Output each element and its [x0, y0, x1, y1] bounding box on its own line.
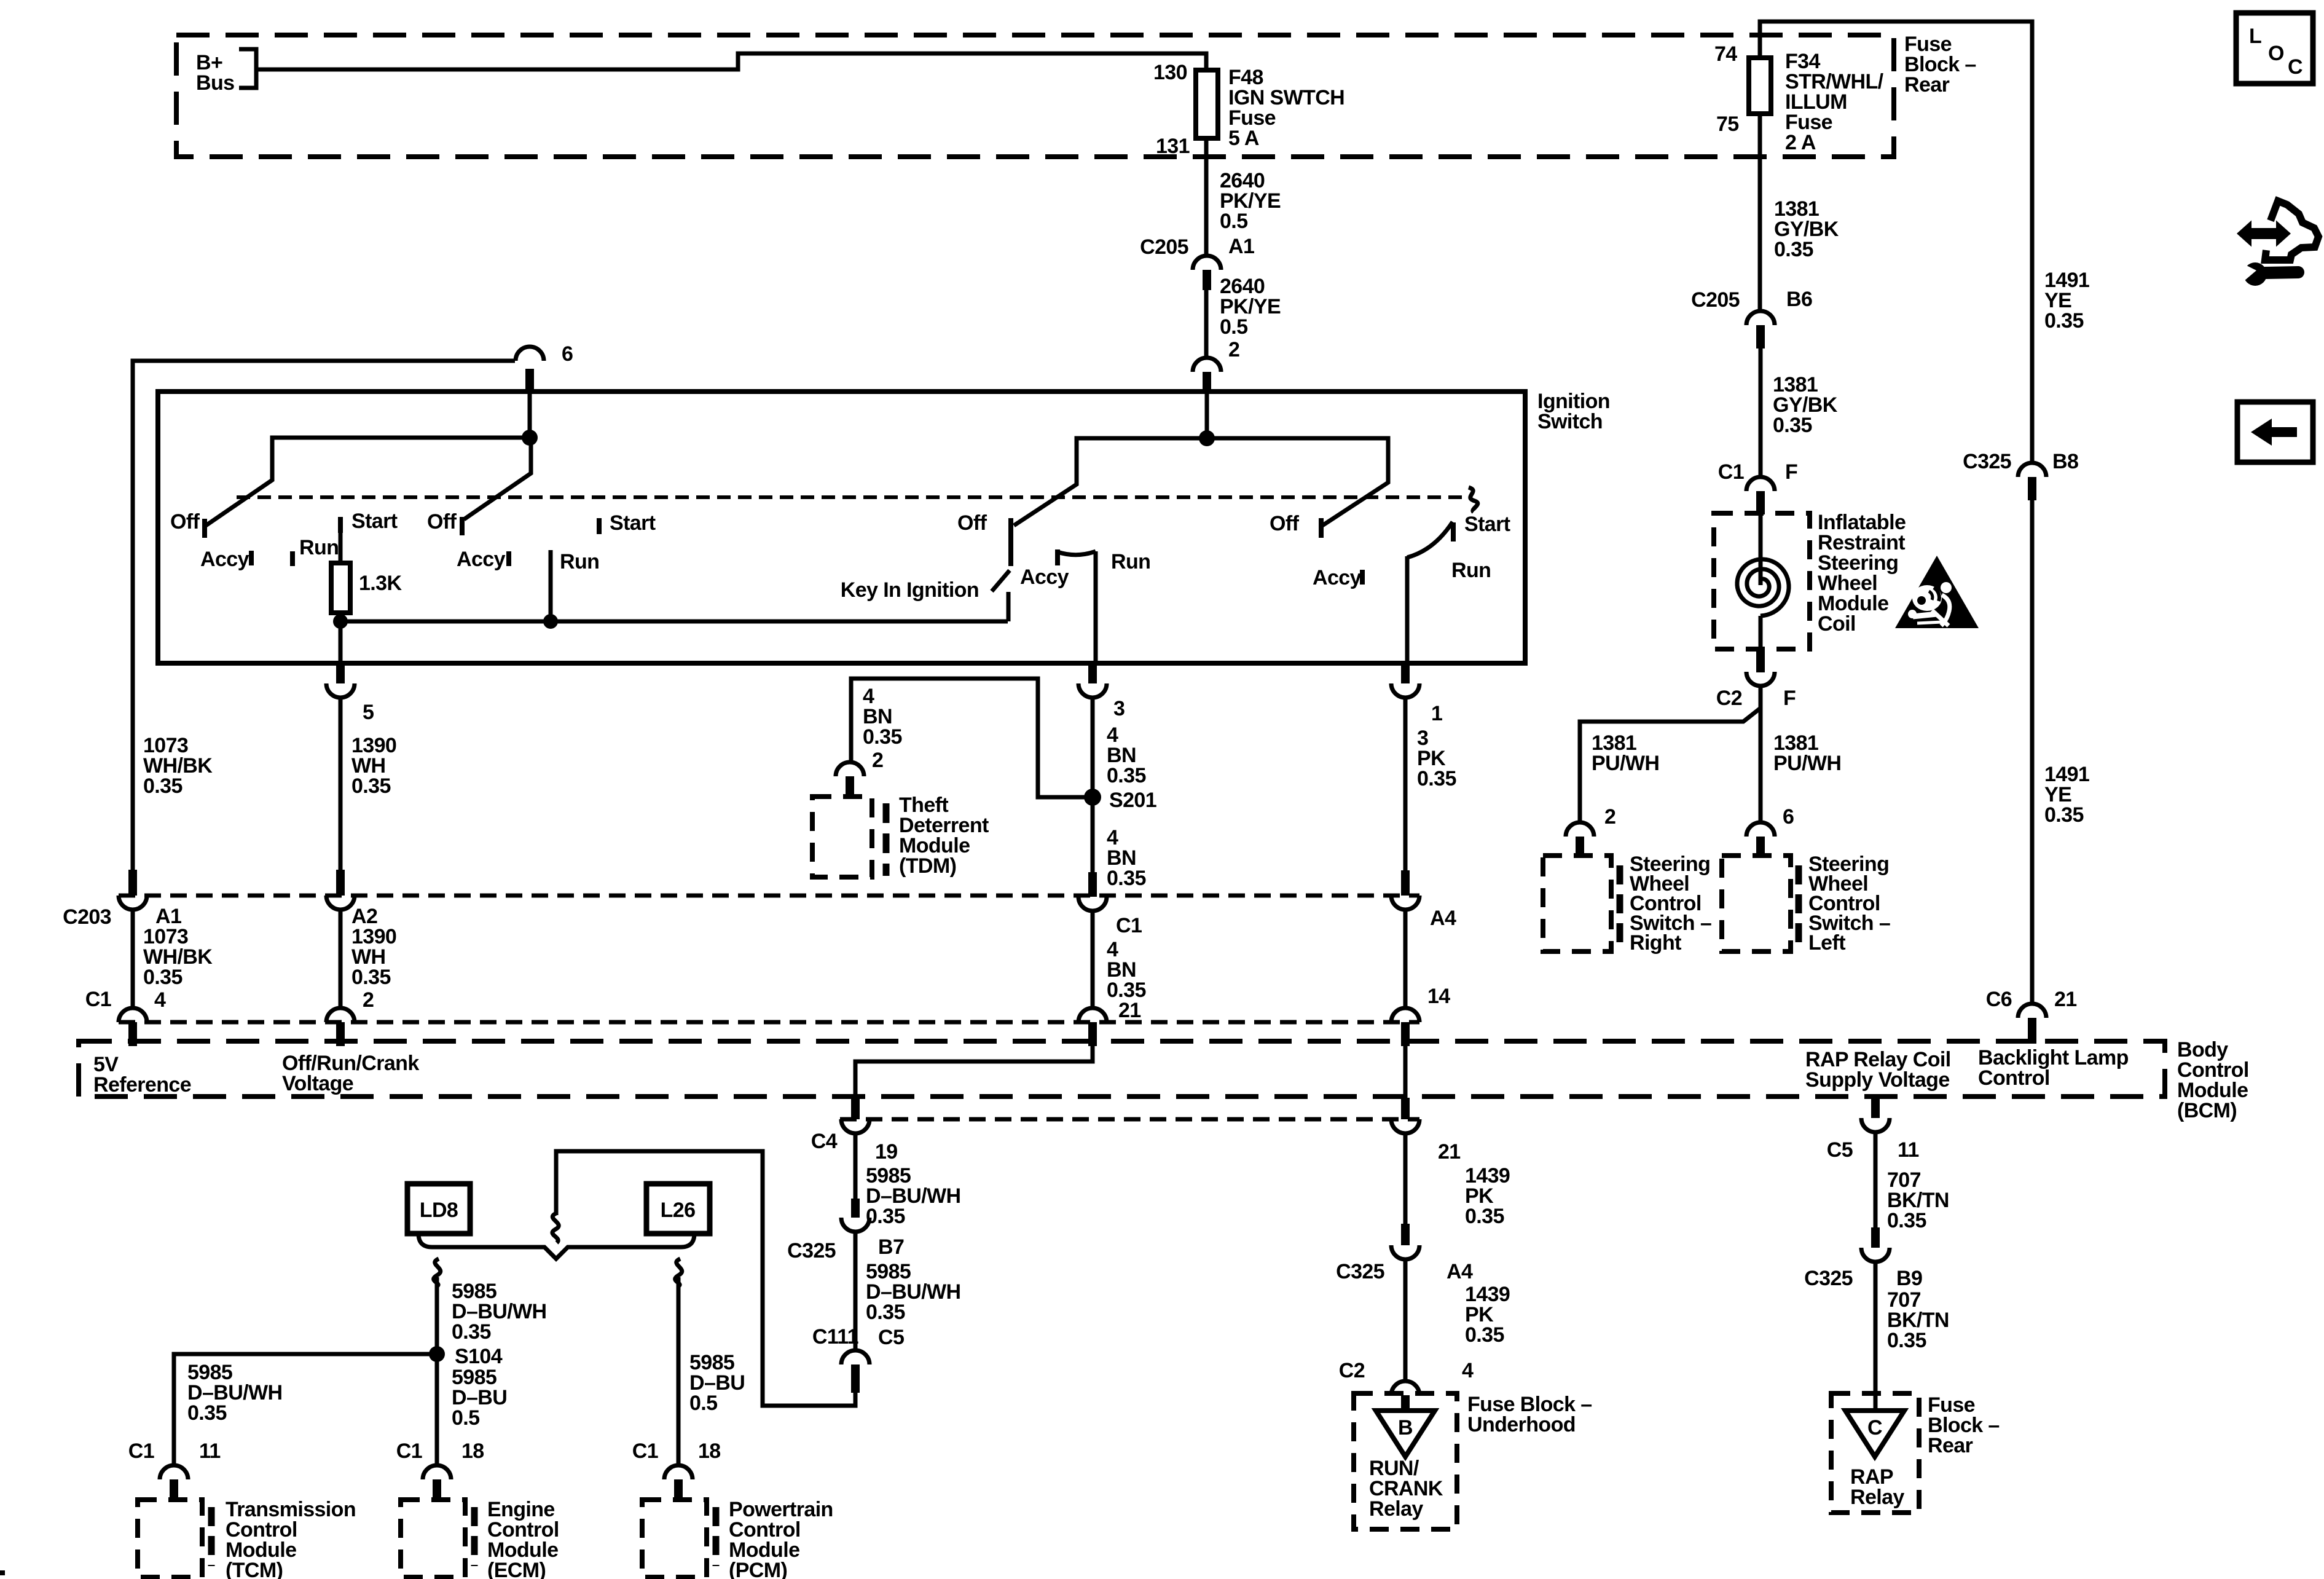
svg-text:18: 18 [461, 1439, 484, 1463]
svg-text:11: 11 [1898, 1138, 1919, 1162]
svg-text:0.35: 0.35 [1773, 414, 1812, 437]
mechanical link break squiggle [1469, 487, 1478, 512]
C203 pin A1 [63, 870, 181, 929]
accy contact 4 [1360, 570, 1365, 585]
svg-text:0.35: 0.35 [866, 1301, 905, 1324]
page mark bottom left [0, 1570, 5, 1575]
LD8 option tag box [407, 1184, 470, 1234]
body control module dashed box [79, 1041, 2165, 1097]
switch wiper 3 [1014, 438, 1207, 526]
svg-text:Off: Off [957, 511, 987, 535]
svg-text:F: F [1785, 460, 1797, 484]
svg-text:(TCM): (TCM) [226, 1559, 283, 1579]
LOC legend box top right [2236, 13, 2313, 84]
wire S201 to theft deterrent module [851, 679, 1093, 797]
svg-text:A4: A4 [1430, 907, 1456, 930]
connector C205 B6 [1691, 288, 1812, 348]
svg-text:0.35: 0.35 [2044, 803, 2084, 827]
svg-text:0.35: 0.35 [1887, 1329, 1926, 1352]
splice S104 [429, 1346, 445, 1362]
svg-text:21: 21 [2054, 988, 2077, 1011]
accy contact 1 [249, 551, 254, 565]
svg-text:0.35: 0.35 [1107, 867, 1146, 890]
svg-text:2: 2 [872, 749, 883, 772]
connector C1 11 at TCM [128, 1439, 221, 1500]
svg-text:6: 6 [1783, 805, 1794, 829]
wire C111 loop up to engine selection brace [556, 1151, 855, 1406]
svg-text:Accy: Accy [1313, 566, 1362, 589]
svg-text:C325: C325 [1963, 450, 2011, 473]
accy contact 2 [506, 551, 511, 566]
wire pin2 into box to junction [1205, 394, 1209, 438]
svg-text:21: 21 [1438, 1140, 1461, 1164]
wire A4 down to C2 4 [1403, 1260, 1408, 1382]
fuse F34 [1749, 58, 1771, 114]
wire C4 down to C325 B7 [854, 1134, 858, 1199]
svg-text:Bus: Bus [196, 71, 234, 95]
wire A4 to BCM 14 [1403, 910, 1408, 1009]
svg-text:2: 2 [363, 988, 374, 1012]
connector C325 B9 [1804, 1227, 1922, 1290]
connector 5 below switch [326, 663, 374, 724]
wire L26 branch to PCM [677, 1277, 681, 1466]
svg-text:0.35: 0.35 [143, 966, 183, 989]
wire C325 B8 down to C6 [2030, 500, 2035, 1004]
svg-text:C325: C325 [787, 1239, 836, 1262]
svg-text:Relay: Relay [1850, 1486, 1904, 1509]
svg-text:C205: C205 [1691, 288, 1740, 312]
wire C203 A1 to BCM C1 4 [131, 910, 135, 1009]
C203 pin A2 [326, 870, 377, 928]
off contact 4 [1319, 518, 1324, 538]
run contact 3 wire to pin 3 [1094, 551, 1098, 663]
svg-text:2 A: 2 A [1785, 131, 1816, 154]
svg-text:B: B [1398, 1416, 1413, 1439]
svg-text:A1: A1 [1228, 235, 1254, 258]
svg-text:0.35: 0.35 [866, 1205, 905, 1228]
svg-text:4: 4 [154, 988, 166, 1012]
connector 6 at ignition switch top [516, 342, 573, 392]
steering wheel control switch right dashed box [1543, 856, 1611, 951]
BCM pin C4 19 [811, 1098, 898, 1164]
ignition switch box [158, 392, 1525, 663]
svg-text:74: 74 [1714, 42, 1737, 66]
svg-text:C111: C111 [812, 1325, 858, 1349]
splice S201 [1084, 789, 1101, 806]
svg-text:130: 130 [1153, 61, 1187, 84]
connector 2 at TDM [836, 749, 883, 797]
wire LD8 branch to S104 [435, 1277, 439, 1354]
svg-text:0.35: 0.35 [1465, 1205, 1504, 1228]
wire to connector 6 (top of ignition switch) [133, 361, 515, 870]
svg-text:0.35: 0.35 [187, 1401, 227, 1425]
connector C1 18 at ECM [396, 1439, 484, 1500]
svg-text:5 A: 5 A [1228, 127, 1259, 150]
svg-text:S201: S201 [1109, 789, 1156, 812]
service icon: double arrow with outline and wrench [2239, 201, 2318, 286]
off contact 3 and key-in-ignition stub [1008, 518, 1013, 566]
run contact 1 [290, 551, 295, 566]
connector C6 21 at BCM [1986, 988, 2077, 1044]
wire 5 to C203 A2 [339, 698, 343, 870]
svg-text:0.35: 0.35 [1465, 1323, 1504, 1347]
svg-text:C203: C203 [63, 905, 111, 929]
svg-text:C5: C5 [1827, 1138, 1853, 1162]
RAP relay triangle C [1845, 1411, 1904, 1457]
svg-text:C205: C205 [1140, 235, 1188, 259]
svg-text:6: 6 [562, 342, 573, 366]
svg-text:B8: B8 [2052, 450, 2078, 473]
wire C205 B6 to C1 F [1759, 348, 1763, 477]
wire 3 to S201 [1091, 698, 1095, 872]
svg-text:Rear: Rear [1904, 73, 1950, 96]
svg-text:4: 4 [1462, 1359, 1474, 1382]
svg-text:Accy: Accy [1020, 565, 1069, 589]
BCM pin 21 [1078, 999, 1141, 1046]
svg-text:Off: Off [427, 510, 457, 534]
svg-text:Start: Start [351, 510, 398, 533]
svg-text:PU/WH: PU/WH [1773, 752, 1841, 775]
svg-text:B6: B6 [1786, 288, 1812, 311]
transmission control module dashed box [138, 1500, 202, 1577]
B+ bus tab [239, 49, 256, 88]
pin A4 at BCM [1391, 870, 1456, 930]
wire 6-pin into box to junction [528, 394, 532, 438]
wire break squiggle above brace [552, 1213, 559, 1243]
svg-text:C1: C1 [632, 1439, 658, 1463]
svg-text:18: 18 [698, 1439, 721, 1463]
svg-text:5: 5 [363, 701, 374, 724]
svg-text:C1: C1 [85, 988, 111, 1011]
wire into coil [1759, 514, 1763, 585]
svg-text:0.5: 0.5 [1220, 210, 1247, 233]
svg-text:0.35: 0.35 [1107, 764, 1146, 787]
junction dot at pin 2 feed [1199, 430, 1215, 446]
fuse block rear dashed box (bottom) [1831, 1393, 1919, 1513]
connector 3 below switch [1078, 663, 1125, 720]
svg-text:Coil: Coil [1818, 612, 1856, 636]
svg-text:(ECM): (ECM) [487, 1559, 546, 1579]
key in ignition switch contact [1007, 592, 1011, 621]
svg-text:C5: C5 [878, 1326, 904, 1349]
svg-text:C1: C1 [396, 1439, 422, 1463]
svg-text:0.5: 0.5 [1220, 315, 1247, 339]
connector line BCM C1 (lower dotted) [119, 1020, 1419, 1025]
connector C1 F (coil top) [1718, 460, 1797, 514]
connector C1 18 at PCM [632, 1439, 721, 1500]
connector 6 steering wheel switch left [1746, 805, 1794, 857]
junction dot run contact 2 [543, 614, 558, 629]
wire B7 down to C111 [854, 1232, 858, 1351]
wire F34 up over to right edge down (1491 YE) [1760, 22, 2032, 463]
inflatable restraint steering wheel module coil dashed box [1714, 513, 1810, 649]
svg-text:0.35: 0.35 [1417, 767, 1456, 790]
connector C111 C5 [812, 1325, 904, 1393]
wiper 3 rest curve to run wire [1058, 551, 1096, 555]
SIR warning triangle [1895, 556, 1979, 628]
wire F34 down to C205 B6 [1758, 114, 1762, 311]
svg-text:19: 19 [875, 1140, 898, 1164]
connector 2 at ignition switch [1193, 338, 1239, 394]
svg-text:Run: Run [1451, 559, 1491, 582]
svg-text:C1: C1 [128, 1439, 154, 1463]
svg-text:C1: C1 [1116, 914, 1142, 937]
svg-text:75: 75 [1716, 112, 1739, 136]
svg-text:B9: B9 [1896, 1267, 1922, 1290]
svg-text:O: O [2268, 42, 2284, 65]
fuse block underhood dashed box [1354, 1393, 1457, 1529]
BCM pin 2 [326, 988, 374, 1046]
svg-text:C2: C2 [1339, 1359, 1365, 1382]
BCM pin 14 [1391, 985, 1450, 1046]
connector line C203 (upper dotted) [119, 894, 1419, 898]
svg-text:11: 11 [199, 1439, 221, 1463]
powertrain control module dashed box [642, 1500, 707, 1577]
svg-text:2: 2 [1604, 805, 1615, 829]
wire out of coil [1759, 616, 1763, 650]
wire C203 A2 to BCM C1 2 [339, 910, 343, 1009]
svg-text:3: 3 [1113, 697, 1125, 720]
svg-text:B7: B7 [878, 1235, 904, 1259]
engine control module dashed box [401, 1500, 465, 1577]
switch wiper 4 [1207, 438, 1388, 526]
wire C1 to BCM 21 [1091, 911, 1095, 1009]
BCM pin 21 below (run/crank column) [1391, 1098, 1461, 1164]
svg-text:S104: S104 [455, 1345, 503, 1368]
wire B9 down to RAP relay [1874, 1262, 1878, 1414]
svg-text:Run: Run [299, 536, 339, 559]
wire C5 down to C325 B9 [1874, 1133, 1878, 1227]
svg-text:0.35: 0.35 [2044, 309, 2084, 333]
coil spiral [1737, 559, 1789, 616]
svg-text:Left: Left [1808, 931, 1845, 955]
svg-text:Control: Control [1978, 1066, 2050, 1090]
svg-text:14: 14 [1427, 985, 1450, 1008]
wire S104 to TCM [174, 1354, 437, 1466]
connector C2 4 at underhood fuse block [1339, 1359, 1474, 1421]
svg-text:(TDM): (TDM) [899, 854, 956, 878]
off contact 1 [202, 519, 207, 538]
switch wiper 2 [464, 438, 531, 519]
run/start bus wire inside switch [340, 620, 1008, 624]
junction dot below resistor [333, 614, 348, 629]
svg-text:Accy: Accy [457, 548, 506, 571]
connector line below BCM (dotted) [840, 1117, 1419, 1122]
connector C325 A4 [1336, 1224, 1473, 1283]
svg-text:0.35: 0.35 [351, 966, 391, 989]
svg-text:Off: Off [170, 510, 200, 534]
off contact 2 [460, 517, 465, 535]
start contact 2 [597, 518, 602, 534]
steering wheel control switch left dashed box [1722, 856, 1791, 951]
S201 wire pin at C1 [1078, 872, 1142, 937]
svg-text:0.35: 0.35 [143, 774, 183, 798]
start contact 1 with 1.3K resistor [338, 517, 343, 533]
svg-text:Start: Start [610, 511, 656, 535]
svg-text:2: 2 [1228, 338, 1239, 361]
back arrow legend box right side [2237, 402, 2313, 462]
svg-text:Right: Right [1630, 931, 1681, 955]
connector 1 below switch [1391, 663, 1442, 725]
svg-text:Accy: Accy [200, 548, 249, 571]
theft deterrent module dashed box [812, 797, 872, 877]
svg-text:0.35: 0.35 [1887, 1209, 1926, 1232]
svg-text:PU/WH: PU/WH [1592, 752, 1659, 775]
svg-text:Relay: Relay [1369, 1497, 1423, 1521]
run contact 2 wire [549, 550, 553, 621]
wire C205 A1 to ignition switch pin 2 [1204, 290, 1209, 358]
svg-text:C1: C1 [1718, 460, 1744, 484]
svg-text:Reference: Reference [93, 1073, 191, 1097]
svg-text:C: C [2288, 55, 2302, 79]
svg-text:0.35: 0.35 [452, 1320, 491, 1344]
connector C325 B8 [1963, 450, 2078, 500]
wire through BCM from pin 14 to 21 out [1403, 1046, 1408, 1099]
wire break squiggle under L26 [675, 1259, 682, 1286]
svg-text:LD8: LD8 [420, 1199, 458, 1222]
svg-text:Run: Run [560, 550, 599, 573]
svg-text:A4: A4 [1447, 1260, 1473, 1283]
wire 1 to BCM A4 [1403, 698, 1408, 870]
svg-text:Run: Run [1111, 550, 1150, 573]
mechanical link dashed line [237, 495, 1469, 499]
svg-text:Start: Start [1464, 513, 1510, 536]
wire 21 down to C325 A4 [1403, 1134, 1408, 1224]
svg-text:131: 131 [1156, 135, 1190, 158]
wire break squiggle under LD8 [434, 1259, 441, 1286]
BCM pin C5 11 (RAP column) [1827, 1098, 1919, 1162]
BCM pin 4 [85, 988, 166, 1046]
svg-text:F: F [1783, 687, 1796, 710]
svg-text:L26: L26 [661, 1199, 696, 1222]
svg-text:L: L [2249, 25, 2261, 48]
svg-text:0.35: 0.35 [1774, 238, 1813, 261]
svg-text:C4: C4 [811, 1130, 838, 1153]
fuse block rear dashed box (top) [176, 35, 1894, 157]
svg-text:Voltage: Voltage [282, 1072, 353, 1095]
svg-text:C325: C325 [1336, 1260, 1384, 1283]
connector C325 B7 [787, 1199, 904, 1262]
run contact 4 wire to pin 1 [1405, 556, 1410, 663]
svg-text:Underhood: Underhood [1467, 1413, 1576, 1436]
wire B+ bus to fuse F48 [258, 53, 1206, 70]
connector C2 F (coil bottom) [1716, 649, 1796, 710]
svg-text:C: C [1867, 1416, 1882, 1439]
wiper 4 rest curve toward start [1407, 522, 1453, 557]
junction dot at pin 6 feed [522, 430, 538, 446]
svg-text:Off: Off [1270, 512, 1300, 535]
connector C205 A1 [1140, 235, 1254, 290]
svg-text:Supply Voltage: Supply Voltage [1805, 1068, 1950, 1092]
svg-text:(PCM): (PCM) [729, 1559, 787, 1579]
svg-text:C2: C2 [1716, 687, 1742, 710]
svg-text:Key In Ignition: Key In Ignition [841, 578, 979, 602]
svg-text:(BCM): (BCM) [2177, 1099, 2237, 1122]
option brace over LD8/L26 [418, 1234, 694, 1259]
wire inside BCM from pin 21 to C4 [855, 1046, 1093, 1099]
svg-text:1.3K: 1.3K [359, 572, 402, 595]
svg-text:C6: C6 [1986, 988, 2012, 1011]
wire S104 to ECM [435, 1354, 439, 1466]
L26 option tag box [646, 1184, 710, 1234]
connector 2 steering wheel switch right [1566, 805, 1615, 857]
svg-text:1: 1 [1431, 702, 1442, 725]
run/crank relay triangle B [1376, 1411, 1435, 1457]
svg-text:Rear: Rear [1928, 1434, 1973, 1457]
switch wiper 1 (accessory) [206, 438, 530, 526]
svg-text:0.5: 0.5 [689, 1392, 717, 1415]
svg-text:0.35: 0.35 [351, 774, 391, 798]
fuse F48 [1196, 70, 1218, 138]
wire C2 F splitting to steering wheel switches [1759, 686, 1763, 822]
wire F48 to C205 [1204, 138, 1209, 256]
svg-text:C325: C325 [1804, 1267, 1853, 1290]
svg-text:0.5: 0.5 [452, 1406, 479, 1430]
svg-text:21: 21 [1118, 999, 1141, 1022]
svg-text:0.35: 0.35 [863, 725, 902, 749]
svg-text:Switch: Switch [1537, 410, 1603, 433]
